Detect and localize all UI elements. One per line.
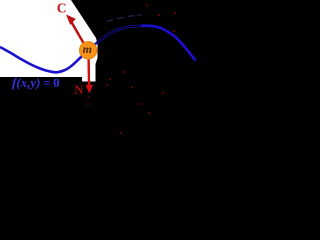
svg-text:C: C [57, 0, 67, 15]
svg-text:N: N [74, 82, 84, 97]
svg-text:f(x,y) = 0: f(x,y) = 0 [12, 75, 60, 90]
svg-text:m: m [83, 42, 92, 56]
